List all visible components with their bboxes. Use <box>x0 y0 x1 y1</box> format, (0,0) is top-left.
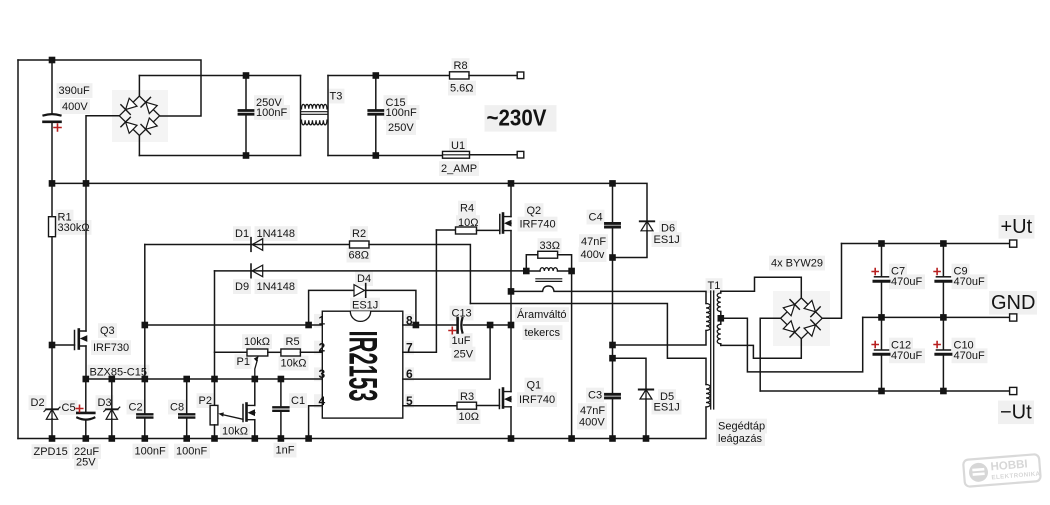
svg-text:U1: U1 <box>451 140 465 152</box>
svg-text:Q3: Q3 <box>100 325 115 337</box>
input bridge diode top-left <box>126 98 137 109</box>
terminal -Ut <box>1010 387 1017 394</box>
junction D5 node <box>609 355 616 362</box>
junction VCC C5 <box>83 376 90 383</box>
svg-text:68Ω: 68Ω <box>349 250 369 262</box>
svg-text:−Ut: −Ut <box>1000 402 1032 424</box>
wire +Ut rail <box>842 243 1010 245</box>
capacitor C9 470uF <box>942 244 944 276</box>
wire R2 right <box>369 245 470 304</box>
capacitor 250V 100nF <box>245 76 247 110</box>
svg-text:D2: D2 <box>31 397 45 409</box>
svg-text:C3: C3 <box>588 390 602 402</box>
junction gnd C5 <box>83 435 90 442</box>
choke T3 right lead <box>327 76 329 156</box>
svg-text:33Ω: 33Ω <box>540 240 560 252</box>
capacitor C12 470uF <box>881 317 883 348</box>
svg-text:400V: 400V <box>62 101 88 113</box>
junction VCC C8 <box>183 376 190 383</box>
svg-text:D3: D3 <box>98 397 112 409</box>
capacitor C15 <box>375 76 377 110</box>
junction rail C4 <box>609 180 616 187</box>
junction VS midpoint <box>508 322 515 329</box>
svg-text:D9: D9 <box>235 281 249 293</box>
svg-text:P1: P1 <box>237 356 250 368</box>
resistor R8 <box>450 72 470 79</box>
svg-text:1: 1 <box>319 314 326 328</box>
svg-text:C2: C2 <box>129 402 143 414</box>
wire P2 bottom <box>214 425 216 439</box>
wire D1 VCC branch <box>144 245 146 380</box>
terminal GND <box>1010 314 1017 321</box>
wire VCC node <box>86 378 322 380</box>
transformer T1 secondary <box>720 291 722 293</box>
junction D4 pin8 <box>413 322 420 329</box>
svg-text:R8: R8 <box>454 60 468 72</box>
svg-text:100nF: 100nF <box>135 446 166 458</box>
diode D4 ES1J <box>354 285 365 297</box>
fuse U1 2A <box>443 151 470 158</box>
svg-text:R3: R3 <box>460 391 474 403</box>
wire 33ohm left <box>526 255 538 271</box>
svg-text:10kΩ: 10kΩ <box>222 426 248 438</box>
choke T3 core <box>301 112 328 115</box>
svg-text:leágazás: leágazás <box>718 433 763 445</box>
wire Q3 drain <box>85 183 87 331</box>
wire GND rail <box>863 316 1010 318</box>
junction GND C9 <box>940 314 947 321</box>
svg-text:25V: 25V <box>76 457 96 469</box>
transistor Q1 IRF740 <box>498 390 500 409</box>
svg-text:tekercs: tekercs <box>525 327 561 339</box>
wire Q4 source <box>254 420 256 439</box>
resistor R3 10ohm <box>457 402 477 409</box>
wire D9 left <box>215 270 527 272</box>
wire pin2 <box>300 351 322 353</box>
polarity + of C12 <box>872 342 878 348</box>
svg-text:C5: C5 <box>62 402 76 414</box>
capacitor C10 470uF <box>942 317 944 348</box>
wire C4 to C3 <box>612 258 614 394</box>
wire D5 branch <box>613 358 647 389</box>
wire bridge top AC <box>138 76 140 97</box>
wire bridge bottom AC <box>138 136 140 156</box>
svg-text:C8: C8 <box>170 402 184 414</box>
wire R4 to Q2 gate <box>477 229 500 231</box>
wire P1 left <box>215 351 248 353</box>
choke T3 left lead <box>300 76 302 156</box>
svg-text:400v: 400v <box>581 249 605 261</box>
capacitor C3 47nF <box>606 393 620 396</box>
wire AC bottom left <box>139 155 300 157</box>
junction rail R1 <box>49 180 56 187</box>
svg-text:Q1: Q1 <box>527 380 542 392</box>
capacitor C1 1nF <box>280 379 282 406</box>
resistor R4 10ohm <box>456 227 477 234</box>
wire pin5 <box>403 405 457 407</box>
svg-text:5.6Ω: 5.6Ω <box>450 83 474 95</box>
wire top-left (mains minus loop) <box>18 60 201 116</box>
svg-text:330kΩ: 330kΩ <box>58 222 90 234</box>
wire pin1 <box>145 324 322 326</box>
junction gnd CT <box>568 435 575 442</box>
junction gnd C2 <box>142 435 149 442</box>
svg-text:470uF: 470uF <box>891 276 922 288</box>
svg-text:1nF: 1nF <box>276 445 295 457</box>
svg-text:400V: 400V <box>579 417 605 429</box>
wire CT to ground <box>571 271 573 439</box>
capacitor C7 470uF <box>881 244 883 276</box>
svg-text:IRF730: IRF730 <box>93 342 129 354</box>
wire AC bottom right <box>328 155 443 157</box>
current transformer primary <box>526 270 540 272</box>
svg-text:470uF: 470uF <box>954 276 985 288</box>
svg-text:C1: C1 <box>291 395 305 407</box>
wire bridge minus <box>760 318 780 391</box>
svg-text:T3: T3 <box>330 91 343 103</box>
svg-text:R5: R5 <box>286 336 300 348</box>
transformer T1 primary <box>706 304 710 331</box>
potentiometer P1 10k <box>247 349 268 356</box>
wire P1 to R5 <box>268 351 281 353</box>
wire R4 left <box>436 229 455 231</box>
svg-text:1N4148: 1N4148 <box>257 228 296 240</box>
output bridge diode top-right <box>804 300 815 311</box>
svg-text:C4: C4 <box>589 212 603 224</box>
wire pin6 <box>403 325 490 379</box>
capacitor C5 22uF <box>85 379 87 412</box>
junction CT right <box>568 268 575 275</box>
diode D1 1N4148 <box>252 239 263 251</box>
wire secondary bottom <box>721 339 802 359</box>
capacitor 390uF 400V <box>51 60 53 114</box>
capacitor C2 100nF <box>144 379 146 413</box>
junction pin1 wire <box>142 322 149 329</box>
junction T1 center tap <box>718 315 725 322</box>
junction gnd C3 <box>609 435 616 442</box>
svg-text:1uF: 1uF <box>452 335 471 347</box>
svg-text:IRF740: IRF740 <box>519 394 555 406</box>
svg-text:R4: R4 <box>460 203 474 215</box>
wire AC top left <box>139 75 300 77</box>
wire D1 to R2 <box>145 244 350 246</box>
output bridge diode bottom-right <box>804 325 815 336</box>
svg-text:100nF: 100nF <box>256 107 287 119</box>
op-amp U2 IR2153 body <box>322 311 403 418</box>
potentiometer P2 10k <box>210 405 218 425</box>
junction rail Q2 drain <box>508 180 515 187</box>
output bridge frame <box>781 298 823 339</box>
wire +310V rail <box>52 183 647 221</box>
junction gnd P2 <box>211 435 218 442</box>
svg-text:1N4148: 1N4148 <box>257 281 296 293</box>
svg-text:10kΩ: 10kΩ <box>281 358 307 370</box>
wire half-bridge midpoint <box>510 231 512 392</box>
wire -Ut rail <box>760 390 1009 392</box>
junction +Ut C9 <box>940 240 947 247</box>
wire Q4 drain <box>254 379 256 405</box>
wire CT node vertical <box>214 271 216 406</box>
junction gnd D2 <box>49 435 56 442</box>
capacitor C4 47nF <box>612 183 614 222</box>
transistor Q3 IRF730 <box>74 331 76 350</box>
transistor Q2 IRF740 <box>499 215 501 234</box>
junction gnd Q1 <box>508 435 515 442</box>
junction C15 bottom <box>373 152 380 159</box>
resistor R5 10k <box>281 349 301 356</box>
wire ground bus <box>18 407 706 439</box>
diode D5 ES1J <box>639 389 653 391</box>
svg-text:47nF: 47nF <box>581 236 606 248</box>
wire bridge plus <box>822 244 841 319</box>
svg-text:470uF: 470uF <box>954 350 985 362</box>
wire AC top right <box>328 75 450 77</box>
svg-text:C13: C13 <box>452 308 472 320</box>
input bridge rectifier frame <box>119 96 159 136</box>
svg-text:Áramváltó: Áramváltó <box>517 308 567 321</box>
junction gnd C1 <box>278 435 285 442</box>
junction gnd D3 <box>109 435 116 442</box>
wire R8 to terminal <box>469 75 517 77</box>
wire pin4 <box>309 406 323 439</box>
resistor R1 330k <box>51 183 53 216</box>
junction -Ut C12 <box>878 388 885 395</box>
junction gnd C8 <box>183 435 190 442</box>
zener D2 ZPD15 <box>46 408 58 410</box>
wire center tap to GND <box>721 317 863 372</box>
svg-text:D1: D1 <box>235 228 249 240</box>
svg-text:10Ω: 10Ω <box>459 411 479 423</box>
junction VCC P2 <box>211 376 218 383</box>
junction 390uF top <box>49 57 56 64</box>
svg-text:Q2: Q2 <box>527 205 542 217</box>
junction +Ut C7 <box>878 240 885 247</box>
svg-text:ES1J: ES1J <box>654 402 680 414</box>
junction VCC wiper <box>252 376 259 383</box>
svg-text:ES1J: ES1J <box>654 234 680 246</box>
polarity + of 390uF <box>54 124 61 131</box>
output bridge diode bottom-left <box>783 321 794 332</box>
diode D9 1N4148 <box>252 265 263 277</box>
junction VCC C2 <box>142 376 149 383</box>
svg-text:100nF: 100nF <box>386 107 417 119</box>
wire U1 to terminal <box>470 154 518 156</box>
wire pin8 <box>403 324 456 326</box>
svg-text:2_AMP: 2_AMP <box>441 163 477 175</box>
current transformer secondary <box>511 286 706 304</box>
terminal mains L <box>517 72 524 79</box>
svg-text:BZX85-C15: BZX85-C15 <box>90 367 147 379</box>
svg-text:100nF: 100nF <box>176 446 207 458</box>
resistor R2 68ohm <box>350 241 370 248</box>
junction C15 top <box>373 72 380 79</box>
svg-text:~230V: ~230V <box>487 105 548 131</box>
wire bridge+ to rail <box>86 116 119 184</box>
wire Q1 source <box>510 407 512 439</box>
junction -Ut C10 <box>940 388 947 395</box>
transformer T1 core <box>711 291 714 409</box>
input bridge diode bottom-right <box>146 118 158 129</box>
svg-text:25V: 25V <box>454 349 474 361</box>
polarity + of C7 <box>872 269 878 275</box>
wire aux feedback <box>470 304 706 385</box>
polarity + of C9 <box>934 269 940 275</box>
svg-text:Segédtáp: Segédtáp <box>718 421 765 433</box>
wire C13 right <box>464 324 512 326</box>
terminal mains N <box>517 151 524 158</box>
svg-text:D6: D6 <box>661 223 675 235</box>
svg-text:GND: GND <box>991 292 1035 314</box>
junction D4 pin1 <box>305 322 312 329</box>
svg-text:250V: 250V <box>388 122 414 134</box>
P1 wiper arrow <box>255 361 257 380</box>
watermark logo <box>963 454 1041 487</box>
svg-text:47nF: 47nF <box>580 405 605 417</box>
label IR2153 <box>340 331 385 402</box>
zener D3 BZX85 <box>111 379 113 409</box>
svg-text:+Ut: +Ut <box>1001 216 1033 238</box>
wire Q2 drain <box>510 183 512 216</box>
svg-text:IR2153: IR2153 <box>340 331 385 402</box>
wire T1 primary bottom <box>613 331 707 346</box>
output bridge diode top-left <box>783 304 794 315</box>
wire Q3 gate <box>52 344 75 346</box>
choke T3 bottom winding <box>302 120 327 125</box>
wire pin7 <box>403 230 437 352</box>
wire secondary top <box>721 277 802 298</box>
svg-text:390uF: 390uF <box>59 85 90 97</box>
capacitor C8 100nF <box>186 379 188 413</box>
resistor 33ohm <box>538 251 558 258</box>
junction T1 primary return <box>609 342 616 349</box>
junction rail Q3 drain <box>83 180 90 187</box>
junction gnd D5 <box>643 435 650 442</box>
svg-text:10kΩ: 10kΩ <box>244 336 270 348</box>
P2 wiper arrow <box>223 415 244 420</box>
junction GND C7 <box>878 314 885 321</box>
junction midpoint CT <box>508 288 515 295</box>
svg-text:3: 3 <box>319 367 326 381</box>
input bridge diode top-right <box>146 102 157 113</box>
svg-text:T1: T1 <box>708 280 721 292</box>
transformer T1 aux winding <box>706 385 710 408</box>
choke T3 top winding <box>302 104 327 108</box>
wire D4 right <box>366 290 416 325</box>
wire Q3 source <box>85 346 87 379</box>
polarity + of C5 <box>76 405 83 412</box>
current transformer core <box>536 279 562 282</box>
polarity + of C13 <box>449 327 456 334</box>
svg-text:D4: D4 <box>357 273 371 285</box>
junction VCC C1 <box>278 376 285 383</box>
junction Q3 gate node <box>49 342 56 349</box>
svg-text:IRF740: IRF740 <box>520 219 556 231</box>
wire D4 left <box>309 290 353 325</box>
junction VCC D3 <box>109 376 116 383</box>
polarity + of C10 <box>934 342 940 348</box>
wire left outer vertical <box>17 60 19 439</box>
svg-text:10Ω: 10Ω <box>458 217 478 229</box>
junction pin6 node <box>487 322 494 329</box>
svg-text:4x BYW29: 4x BYW29 <box>771 258 823 270</box>
wire R3 to Q1 gate <box>477 405 500 407</box>
capacitor C13 1uF <box>456 318 459 333</box>
transistor Q4 (P2 FET) <box>242 405 244 422</box>
svg-text:P2: P2 <box>199 395 212 407</box>
diode D6 ES1J <box>640 220 654 222</box>
wire 33ohm right <box>558 255 572 271</box>
junction gnd pin4 <box>305 435 312 442</box>
terminal +Ut <box>1010 240 1017 247</box>
svg-text:ZPD15: ZPD15 <box>34 446 68 458</box>
junction gnd Q4 <box>252 435 259 442</box>
svg-text:R2: R2 <box>352 228 366 240</box>
svg-text:ES1J: ES1J <box>352 300 378 312</box>
input bridge diode bottom-left <box>126 122 137 133</box>
junction X2 cap top <box>243 72 250 79</box>
junction C4 D6 <box>609 254 616 261</box>
junction X2 cap bottom <box>243 152 250 159</box>
svg-text:470uF: 470uF <box>891 350 922 362</box>
junction CT left <box>523 268 530 275</box>
